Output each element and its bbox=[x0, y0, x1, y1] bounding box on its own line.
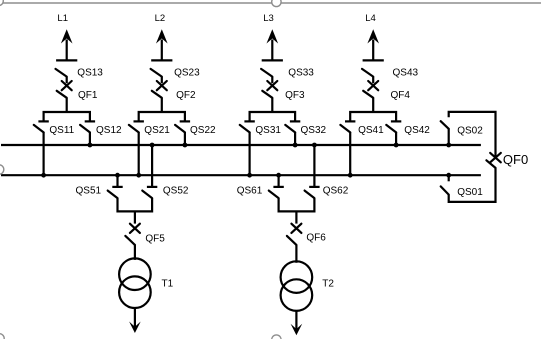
svg-text:QF1: QF1 bbox=[78, 90, 98, 101]
svg-text:L3: L3 bbox=[263, 13, 274, 24]
svg-text:QF6: QF6 bbox=[306, 232, 326, 243]
svg-text:QS01: QS01 bbox=[457, 187, 483, 198]
svg-text:QS52: QS52 bbox=[163, 186, 189, 197]
svg-text:QF2: QF2 bbox=[176, 90, 196, 101]
svg-text:QS41: QS41 bbox=[358, 125, 384, 136]
svg-text:QS02: QS02 bbox=[457, 126, 483, 137]
svg-text:QS61: QS61 bbox=[237, 186, 263, 197]
svg-text:L4: L4 bbox=[365, 13, 376, 24]
svg-text:QF0: QF0 bbox=[503, 152, 528, 167]
svg-text:QF3: QF3 bbox=[285, 90, 305, 101]
svg-text:QS22: QS22 bbox=[190, 125, 216, 136]
svg-text:QS12: QS12 bbox=[96, 125, 122, 136]
svg-text:QS33: QS33 bbox=[288, 68, 314, 79]
svg-text:L2: L2 bbox=[155, 13, 166, 24]
svg-text:QF4: QF4 bbox=[391, 90, 411, 101]
svg-text:QS62: QS62 bbox=[323, 186, 349, 197]
svg-text:QS13: QS13 bbox=[77, 68, 103, 79]
svg-text:QS21: QS21 bbox=[144, 125, 170, 136]
svg-text:T1: T1 bbox=[162, 278, 174, 289]
svg-text:L1: L1 bbox=[57, 13, 68, 24]
svg-text:QS32: QS32 bbox=[301, 125, 327, 136]
svg-text:QS42: QS42 bbox=[404, 125, 430, 136]
svg-text:QS43: QS43 bbox=[393, 68, 419, 79]
svg-text:QS31: QS31 bbox=[255, 125, 281, 136]
svg-text:QS23: QS23 bbox=[174, 68, 200, 79]
svg-text:T2: T2 bbox=[322, 278, 334, 289]
svg-text:QS11: QS11 bbox=[49, 125, 74, 136]
svg-text:QF5: QF5 bbox=[145, 234, 165, 245]
svg-text:QS51: QS51 bbox=[76, 186, 102, 197]
